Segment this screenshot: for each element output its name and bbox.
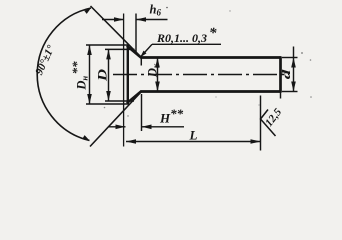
svg-text:d: d <box>281 69 293 79</box>
svg-text:Dк: Dк <box>146 63 161 78</box>
svg-text:Dн**: Dн** <box>69 61 89 91</box>
svg-text:R0,1... 0,3*: R0,1... 0,3* <box>156 26 217 46</box>
svg-text:D: D <box>95 68 110 82</box>
svg-text:90°±1°: 90°±1° <box>33 43 57 77</box>
svg-text:L: L <box>189 128 198 143</box>
svg-text:H**: H** <box>159 106 184 126</box>
svg-text:h6: h6 <box>150 3 162 18</box>
